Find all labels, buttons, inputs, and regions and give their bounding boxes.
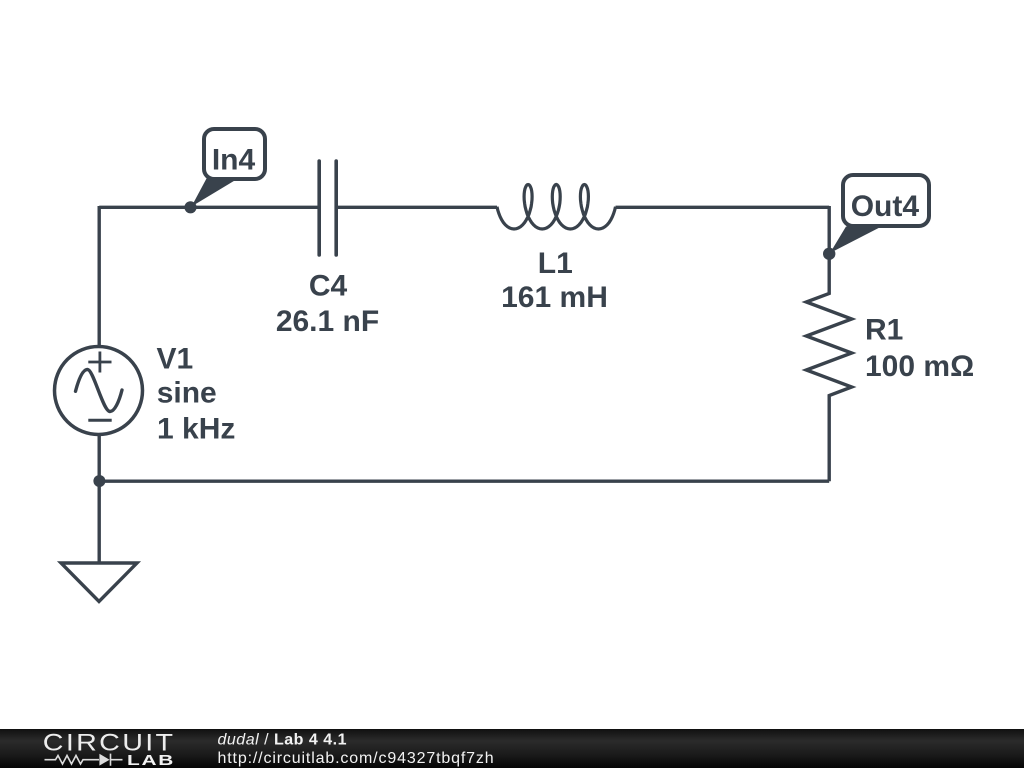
svg-text:http://circuitlab.com/c94327tb: http://circuitlab.com/c94327tbqf7zh xyxy=(218,750,495,767)
svg-text:100 mΩ: 100 mΩ xyxy=(865,350,974,383)
svg-text:L1: L1 xyxy=(538,247,573,280)
svg-text:1 kHz: 1 kHz xyxy=(157,412,235,445)
svg-text:161 mH: 161 mH xyxy=(501,281,608,314)
svg-text:26.1 nF: 26.1 nF xyxy=(276,305,379,338)
svg-text:In4: In4 xyxy=(212,144,256,177)
svg-text:R1: R1 xyxy=(865,314,903,347)
svg-text:sine: sine xyxy=(157,376,217,409)
svg-text:Out4: Out4 xyxy=(851,190,920,223)
svg-text:C4: C4 xyxy=(309,269,348,302)
svg-text:LAB: LAB xyxy=(127,752,175,768)
svg-text:V1: V1 xyxy=(157,343,194,376)
svg-text:dudal / Lab 4 4.1: dudal / Lab 4 4.1 xyxy=(218,732,347,749)
